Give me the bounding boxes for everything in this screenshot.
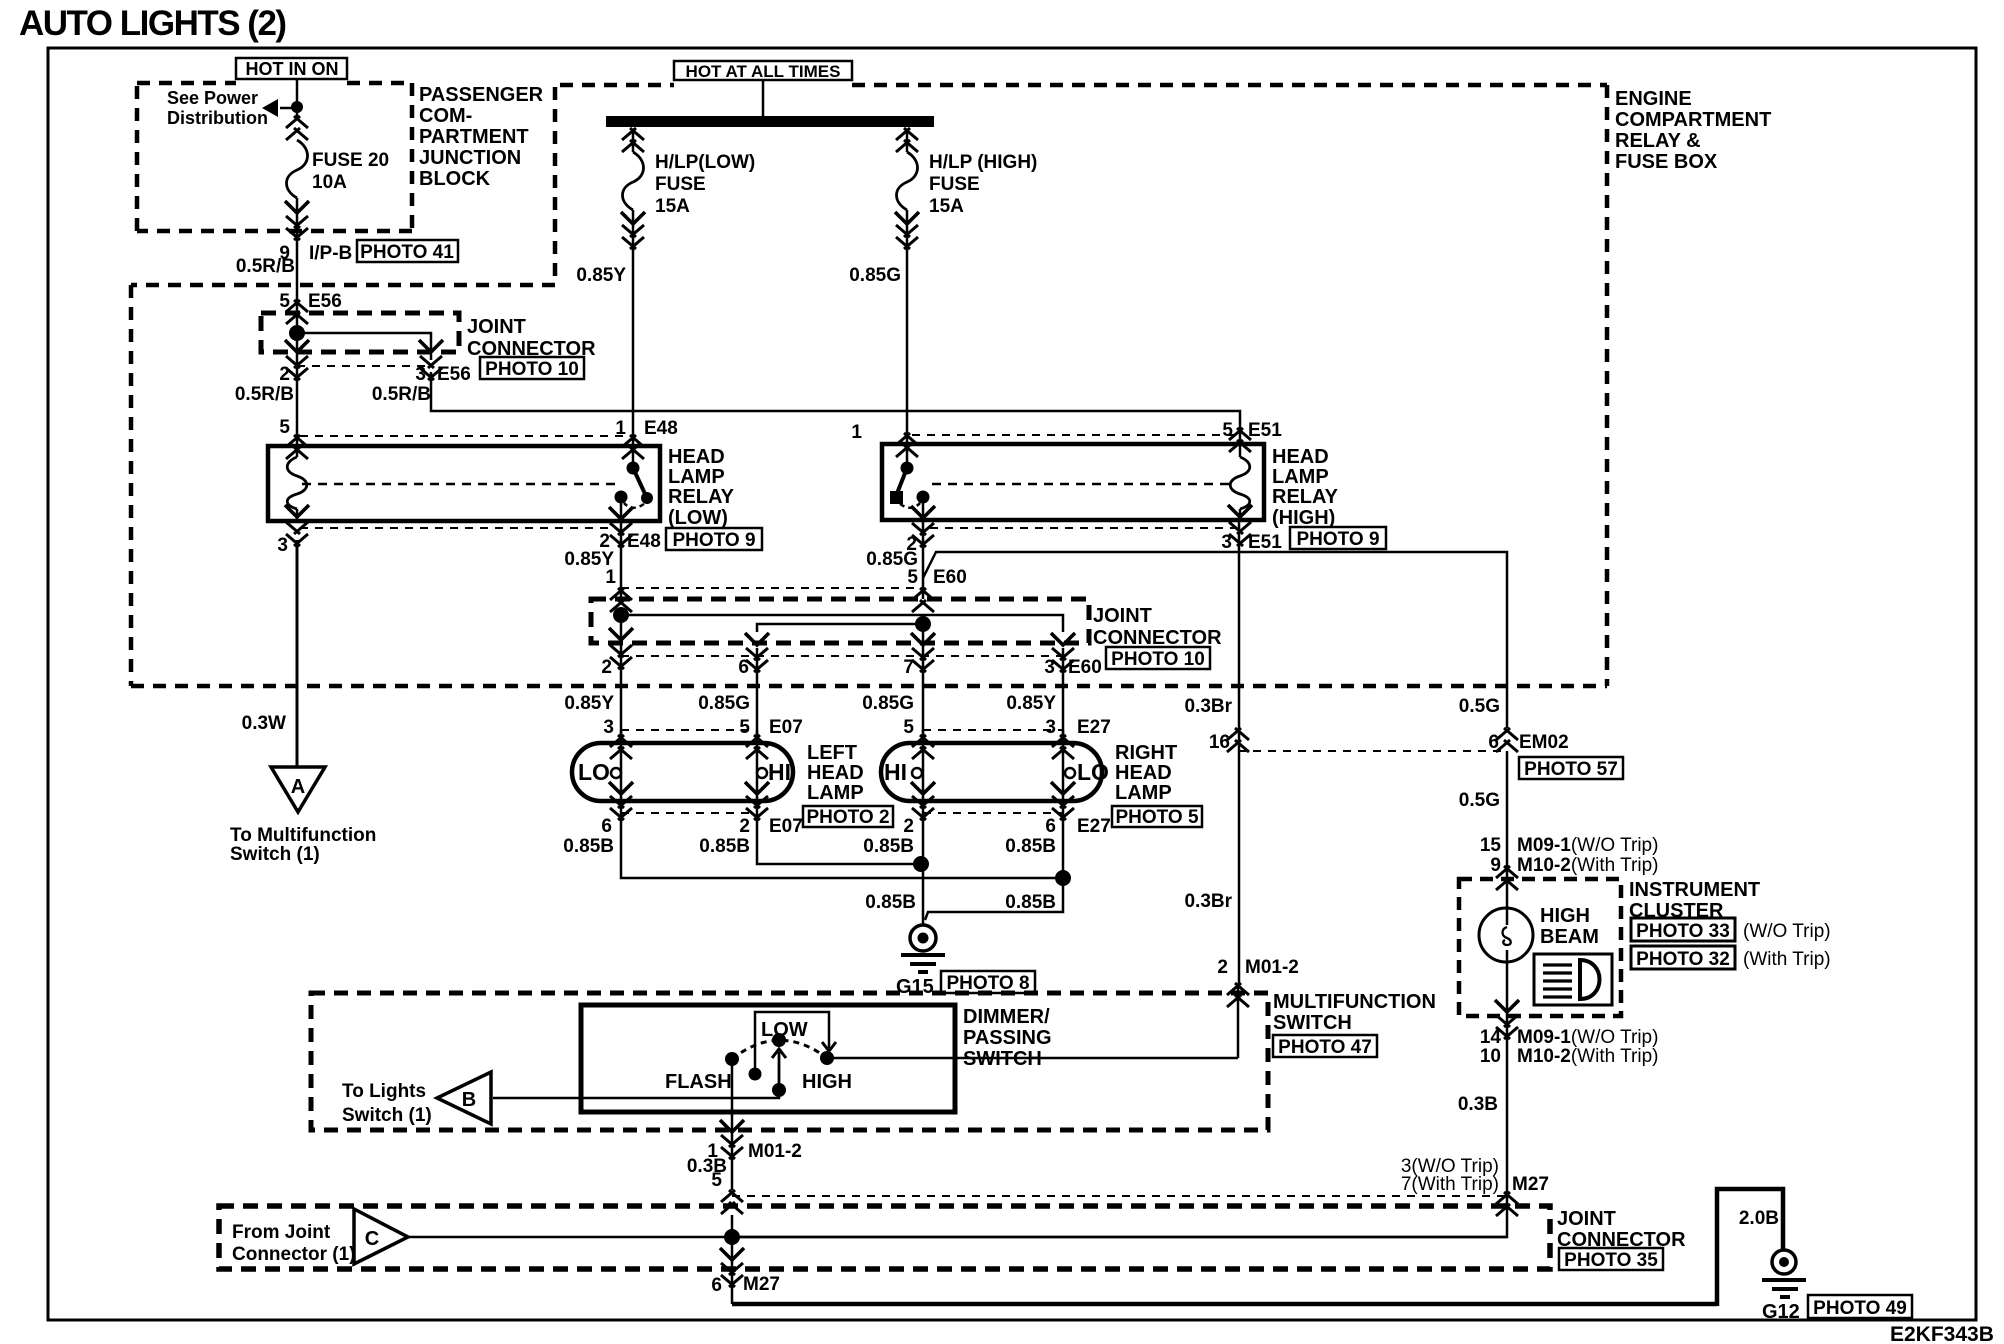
svg-text:E27: E27 (1077, 717, 1111, 738)
svg-text:FUSE 20: FUSE 20 (312, 150, 389, 171)
fuse H/LP (HIGH) FUSE 15A (897, 152, 918, 210)
relay low coil exit pin 3 (285, 505, 309, 517)
svg-text:0.85G: 0.85G (698, 693, 750, 714)
right head lamp oval (881, 743, 1102, 801)
svg-text:HIGH: HIGH (802, 1071, 852, 1093)
svg-text:HI: HI (884, 759, 907, 785)
wire relay low pin2 to E60 pin1 (620, 521, 623, 599)
label HOT AT ALL TIMES (674, 61, 852, 81)
svg-text:PHOTO 35: PHOTO 35 (1564, 1250, 1658, 1271)
svg-text:LO: LO (1077, 759, 1109, 785)
svg-text:0.85B: 0.85B (865, 892, 916, 913)
svg-text:JUNCTION: JUNCTION (419, 147, 521, 169)
connector marker M27 pin5 (721, 1190, 743, 1214)
svg-text:HIGH: HIGH (1540, 905, 1590, 927)
svg-text:2: 2 (1217, 957, 1228, 978)
svg-text:PASSENGER: PASSENGER (419, 84, 544, 106)
wires E60 exits downward (621, 615, 1063, 735)
relay low pin2 exit chevron and labels (610, 523, 632, 547)
wire 0.5G to instrument cluster (1506, 751, 1509, 879)
svg-text:5: 5 (903, 717, 914, 738)
label PHOTO 9 (low) (666, 528, 762, 551)
svg-text:15A: 15A (929, 196, 964, 217)
svg-text:7: 7 (903, 657, 914, 678)
relay high pin2 exit chevron and label (912, 523, 934, 547)
svg-text:HOT IN ON: HOT IN ON (246, 59, 339, 79)
svg-text:C: C (365, 1228, 379, 1250)
svg-text:FUSE: FUSE (929, 174, 980, 195)
svg-text:LAMP: LAMP (807, 782, 864, 804)
svg-text:2: 2 (279, 364, 290, 385)
connector E60 dashed line (bottom) (621, 655, 1063, 657)
svg-text:Switch (1): Switch (1) (230, 844, 320, 865)
svg-text:E51: E51 (1248, 420, 1282, 441)
connector dashed line E07 bottom (621, 812, 758, 814)
svg-text:PHOTO 10: PHOTO 10 (1111, 649, 1205, 670)
svg-text:1: 1 (615, 418, 626, 439)
high beam icon box (1534, 954, 1612, 1005)
wire 0.3W relay low coil to A (296, 540, 299, 767)
svg-text:PHOTO 49: PHOTO 49 (1813, 1298, 1907, 1319)
connector E48 dashed line (top) (300, 435, 628, 437)
label PHOTO 57 (1519, 757, 1623, 780)
svg-text:E56: E56 (308, 291, 342, 312)
connector marker E56 pin2 exit (285, 340, 309, 352)
svg-text:1: 1 (605, 567, 616, 588)
svg-text:(With Trip): (With Trip) (1743, 949, 1831, 970)
svg-text:9: 9 (1490, 855, 1501, 876)
relay low linkage dashed (302, 483, 616, 486)
dashed box: passenger compartment junction block (lower) + engine compartment relay & fuse box (131, 85, 1607, 686)
svg-text:15A: 15A (655, 196, 690, 217)
svg-text:FLASH: FLASH (665, 1071, 732, 1093)
node junction at M27 pin6 (724, 1229, 740, 1245)
svg-text:SWITCH: SWITCH (1273, 1012, 1352, 1034)
wire below fuse 20 (296, 198, 299, 299)
label PHOTO 35 (1559, 1248, 1663, 1271)
connector E56 dashed line (bottom) (297, 365, 431, 367)
svg-text:M01-2: M01-2 (748, 1141, 802, 1162)
text PASSENGER COMPARTMENT JUNCTION BLOCK (419, 84, 544, 190)
fuse FUSE 20 10A symbol (287, 140, 308, 198)
svg-text:FUSE: FUSE (655, 174, 706, 195)
svg-text:PHOTO 41: PHOTO 41 (360, 242, 454, 263)
left lamp wires through (621, 730, 757, 813)
label PHOTO 5 (1112, 806, 1202, 828)
svg-text:E48: E48 (644, 418, 678, 439)
svg-text:HEAD: HEAD (1115, 762, 1172, 784)
svg-text:0.5R/B: 0.5R/B (372, 384, 431, 405)
label PHOTO 9 (high) (1290, 527, 1386, 550)
connector marker M27 right (1496, 1192, 1518, 1216)
power bus bar (606, 116, 934, 127)
connector marker E48 pin1 (622, 435, 644, 459)
svg-text:2: 2 (601, 657, 612, 678)
svg-text:3: 3 (415, 364, 426, 385)
text ENGINE COMPARTMENT RELAY & FUSE BOX (1615, 88, 1771, 173)
svg-text:HEAD: HEAD (807, 762, 864, 784)
text HIGH BEAM (1540, 905, 1599, 948)
node junction E60 high (915, 616, 931, 632)
node junction 0.85B low (1055, 870, 1071, 886)
svg-text:RELAY: RELAY (1272, 486, 1339, 508)
joint connector E60 dashed box (591, 599, 1089, 643)
wire 0.3B down to M27 (732, 1016, 1507, 1237)
svg-text:1: 1 (851, 422, 862, 443)
svg-text:2.0B: 2.0B (1739, 1208, 1779, 1229)
svg-text:E27: E27 (1077, 816, 1111, 837)
svg-text:MULTIFUNCTION: MULTIFUNCTION (1273, 991, 1436, 1013)
svg-text:M01-2: M01-2 (1245, 957, 1299, 978)
connector E60 dashed line (top) (621, 587, 915, 589)
svg-text:E2KF343B: E2KF343B (1890, 1323, 1994, 1344)
svg-text:5: 5 (711, 1170, 722, 1191)
svg-text:HI: HI (768, 759, 791, 785)
svg-text:3: 3 (603, 717, 614, 738)
ground bus wire from left HI to right HI (757, 813, 921, 864)
connector marker E51 pin1 (896, 433, 918, 457)
dimmer travel dashed arc (732, 1040, 827, 1059)
relay high switch contact (906, 444, 909, 468)
wire pivot to B line (493, 1090, 779, 1098)
wire from fuse HIGH down to relay E51-1 (906, 129, 909, 442)
svg-text:0.85G: 0.85G (862, 693, 914, 714)
wire relay high pin3 branch: down 0.3Br and right 0.5G (1238, 520, 1241, 983)
wire FLASH contact down exit 1 M01-2 (731, 1059, 734, 1190)
svg-text:PHOTO 9: PHOTO 9 (1296, 529, 1379, 550)
wire from HOT AT ALL TIMES to bus (762, 80, 765, 116)
connector marker into instrument cluster (1496, 866, 1518, 890)
svg-text:0.3Br: 0.3Br (1184, 891, 1232, 912)
text JOINT CONNECTOR (E60) (1093, 605, 1222, 649)
svg-text:M27: M27 (1512, 1174, 1549, 1195)
svg-text:3: 3 (1221, 532, 1232, 553)
label HOT IN ON (236, 58, 347, 79)
svg-text:COM-: COM- (419, 105, 472, 127)
high beam indicator bulb (1479, 908, 1533, 962)
svg-text:0.85B: 0.85B (1005, 892, 1056, 913)
fuse H/LP(LOW) connector chevrons (622, 128, 644, 152)
svg-text:PHOTO 32: PHOTO 32 (1636, 949, 1730, 970)
svg-text:(W/O Trip): (W/O Trip) (1743, 921, 1831, 942)
svg-text:RELAY &: RELAY & (1615, 130, 1701, 152)
svg-text:PASSING: PASSING (963, 1027, 1052, 1049)
svg-text:3: 3 (1045, 717, 1056, 738)
svg-text:10A: 10A (312, 172, 347, 193)
connector E51 dashed line (top) (912, 434, 1235, 436)
svg-text:H/LP (HIGH): H/LP (HIGH) (929, 152, 1037, 173)
svg-text:FUSE BOX: FUSE BOX (1615, 151, 1718, 173)
triangle A to multifunction switch (271, 767, 325, 812)
svg-text:5: 5 (279, 417, 290, 438)
label PHOTO 10 (E60) (1106, 647, 1210, 670)
node junction 0.85B high (913, 856, 929, 872)
text DIMMER/ PASSING SWITCH (963, 1006, 1052, 1070)
svg-text:PHOTO 10: PHOTO 10 (485, 359, 579, 380)
svg-text:I/P-B: I/P-B (309, 243, 352, 264)
wire right LO jog to ground wire (925, 813, 1063, 920)
svg-text:To Lights: To Lights (342, 1081, 426, 1102)
svg-text:0.85Y: 0.85Y (564, 693, 614, 714)
svg-text:6: 6 (738, 657, 749, 678)
relay high coil (1239, 444, 1242, 520)
fuse F20 connector chevrons (top) (286, 116, 308, 140)
svg-text:BLOCK: BLOCK (419, 168, 491, 190)
svg-text:Connector (1): Connector (1) (232, 1244, 356, 1265)
triangle B to lights switch (437, 1072, 491, 1124)
text HEAD LAMP RELAY (LOW) (668, 446, 735, 529)
svg-text:3: 3 (277, 535, 288, 556)
label PHOTO 33 (W/O Trip) (1631, 918, 1831, 942)
svg-text:M09-1(W/O Trip): M09-1(W/O Trip) (1517, 835, 1658, 856)
wire 0.5R/B down to relay LOW coil pin5 (296, 360, 299, 446)
wire segment: right edge of upper passenger block extension (553, 87, 558, 285)
svg-text:0.85B: 0.85B (563, 836, 614, 857)
wire E60 high bus to left lamp HI (757, 624, 923, 632)
svg-text:PHOTO 33: PHOTO 33 (1636, 921, 1730, 942)
svg-text:PHOTO 57: PHOTO 57 (1524, 759, 1618, 780)
label PHOTO 47 (1273, 1035, 1377, 1058)
svg-text:M10-2(With Trip): M10-2(With Trip) (1517, 855, 1658, 876)
joint connector E56 dashed box (261, 313, 459, 352)
svg-text:CONNECTOR: CONNECTOR (1093, 627, 1222, 649)
svg-text:0.3B: 0.3B (1458, 1094, 1498, 1115)
connector dashed line E07 top (621, 729, 758, 731)
svg-text:0.5R/B: 0.5R/B (236, 256, 295, 277)
svg-text:E51: E51 (1248, 532, 1282, 553)
triangle C from joint connector (354, 1209, 408, 1264)
node junction inside E56 joint connector (289, 325, 305, 341)
fuse H/LP(LOW) FUSE 15A (623, 152, 644, 210)
connector EM02 dashed line (1238, 750, 1504, 752)
connector marker below fuse 20 (285, 201, 309, 213)
connector E51 dashed line (bottom) (930, 527, 1235, 529)
svg-text:7(With Trip): 7(With Trip) (1401, 1174, 1499, 1195)
svg-text:LAMP: LAMP (1272, 466, 1329, 488)
svg-text:HEAD: HEAD (668, 446, 725, 468)
svg-text:6: 6 (711, 1275, 722, 1296)
connector marker E51 pin5 (1229, 428, 1251, 452)
wire 0.5G tap from 0.85G (923, 552, 1507, 728)
E60 exit arrows (609, 628, 633, 640)
svg-text:To Multifunction: To Multifunction (230, 825, 376, 846)
ground G15 symbol (910, 925, 936, 951)
wire right HI down to ground (922, 813, 925, 925)
dimmer arm: LOW dot, arrow, pivot (772, 1033, 786, 1047)
svg-text:LEFT: LEFT (807, 742, 857, 764)
wire C to M27 junction (408, 1236, 1507, 1239)
svg-text:G15: G15 (896, 976, 934, 998)
wire HIGH contact to 0.3Br (827, 983, 1238, 1058)
connector E48 dashed line (bottom) (300, 527, 612, 529)
svg-text:HEAD: HEAD (1272, 446, 1329, 468)
svg-text:0.85Y: 0.85Y (576, 265, 626, 286)
svg-text:PHOTO 5: PHOTO 5 (1115, 807, 1198, 828)
svg-text:0.3Br: 0.3Br (1184, 696, 1232, 717)
relay high linkage dashed (932, 483, 1232, 486)
svg-text:0.3W: 0.3W (242, 713, 286, 734)
text LEFT HEAD LAMP (807, 742, 864, 804)
dashed box: passenger compartment junction block (upper) (137, 83, 412, 231)
svg-text:BEAM: BEAM (1540, 926, 1599, 948)
svg-text:5: 5 (907, 567, 918, 588)
svg-text:0.85Y: 0.85Y (1006, 693, 1056, 714)
svg-text:PHOTO 9: PHOTO 9 (672, 530, 755, 551)
label PHOTO 2 (803, 806, 893, 828)
svg-text:15: 15 (1480, 835, 1502, 856)
right lamp wires through (923, 730, 1063, 813)
relay high coil exit pin 3 E51 (1228, 505, 1252, 517)
connector M27 dashed line (732, 1195, 1507, 1197)
left head lamp oval (572, 743, 793, 801)
node junction at HOT IN ON (291, 101, 303, 113)
ground G12 symbol (1772, 1250, 1796, 1274)
dashed box: instrument cluster (1459, 879, 1621, 1016)
dimmer passing switch solid box (581, 1005, 955, 1112)
svg-text:HOT AT ALL TIMES: HOT AT ALL TIMES (686, 62, 841, 81)
svg-text:16: 16 (1209, 732, 1230, 753)
svg-text:6: 6 (1488, 732, 1499, 753)
svg-text:E07: E07 (769, 816, 803, 837)
svg-text:RELAY: RELAY (668, 486, 735, 508)
svg-text:B: B (462, 1089, 476, 1111)
svg-text:JOINT: JOINT (1557, 1208, 1616, 1230)
connector dashed line E27 top (923, 729, 1063, 731)
svg-text:E60: E60 (1068, 657, 1102, 678)
svg-text:5: 5 (739, 717, 750, 738)
label PHOTO 10 (E56) (480, 357, 584, 380)
svg-text:EM02: EM02 (1519, 732, 1569, 753)
svg-text:DIMMER/: DIMMER/ (963, 1006, 1050, 1028)
wire E56-3 to relay HIGH coil pin5 (0.5R/B feed) (431, 372, 1240, 444)
svg-text:0.5G: 0.5G (1459, 696, 1500, 717)
dashed box: multifunction switch (311, 993, 1268, 1130)
wire: HOT IN ON drop (296, 78, 299, 120)
svg-text:(LOW): (LOW) (668, 507, 728, 529)
svg-text:2: 2 (739, 816, 750, 837)
high beam icon rays (1543, 965, 1572, 997)
instrument cluster exit arrow (1495, 1000, 1519, 1012)
svg-text:3: 3 (1044, 657, 1055, 678)
svg-text:PHOTO 2: PHOTO 2 (806, 807, 889, 828)
svg-text:M09-1(W/O Trip): M09-1(W/O Trip) (1517, 1027, 1658, 1048)
svg-text:10: 10 (1480, 1046, 1501, 1067)
svg-text:0.85G: 0.85G (849, 265, 901, 286)
svg-text:0.85B: 0.85B (1005, 836, 1056, 857)
svg-text:E60: E60 (933, 567, 967, 588)
wire 2.0B ground run (732, 1189, 1783, 1306)
svg-text:6: 6 (1045, 816, 1056, 837)
svg-text:0.5G: 0.5G (1459, 790, 1500, 811)
relay low box (268, 446, 660, 521)
svg-text:E56: E56 (437, 364, 471, 385)
svg-text:See Power: See Power (167, 88, 258, 108)
wire from fuse LOW down to relay E48-1 (632, 129, 635, 444)
svg-text:LAMP: LAMP (1115, 782, 1172, 804)
ground bus wire from left LO to right LO (621, 813, 1063, 878)
relay low switch contact (632, 444, 635, 468)
text MULTIFUNCTION SWITCH (1273, 991, 1436, 1034)
text RIGHT HEAD LAMP (1115, 742, 1177, 804)
connector marker E56 pin5 (286, 300, 308, 324)
svg-text:H/LP(LOW): H/LP(LOW) (655, 152, 755, 173)
text INSTRUMENT CLUSTER (1629, 879, 1760, 922)
svg-text:COMPARTMENT: COMPARTMENT (1615, 109, 1771, 131)
svg-text:E07: E07 (769, 717, 803, 738)
HIGH contact dot (820, 1051, 834, 1065)
connector marker M01-2 pin2 (1227, 983, 1249, 1007)
LOW contact bracket (755, 1012, 829, 1070)
svg-text:(HIGH): (HIGH) (1272, 507, 1335, 529)
arrow to See Power Distribution (280, 107, 297, 110)
connector marker E56 pin3 exit (419, 340, 443, 352)
svg-text:JOINT: JOINT (467, 316, 526, 338)
svg-text:LO: LO (578, 759, 610, 785)
svg-text:G12: G12 (1762, 1301, 1800, 1323)
svg-text:14: 14 (1480, 1027, 1502, 1048)
svg-text:JOINT: JOINT (1093, 605, 1152, 627)
label PHOTO 32 (With Trip) (1631, 946, 1831, 970)
high beam icon lens (1580, 960, 1600, 999)
connector dashed line E27 bottom (923, 812, 1063, 814)
FLASH contact dot (725, 1052, 739, 1066)
svg-text:Distribution: Distribution (167, 108, 268, 128)
svg-text:From Joint: From Joint (232, 1222, 331, 1243)
svg-text:Switch (1): Switch (1) (342, 1105, 432, 1126)
svg-text:INSTRUMENT: INSTRUMENT (1629, 879, 1760, 901)
wire from junction to E56 pin3 branch (297, 333, 431, 360)
svg-text:LAMP: LAMP (668, 466, 725, 488)
node junction E60 low (613, 607, 629, 623)
svg-text:E48: E48 (627, 531, 661, 552)
svg-text:RIGHT: RIGHT (1115, 742, 1177, 764)
pin 6 EM02 chevron (1496, 728, 1518, 752)
relay high box (882, 444, 1264, 520)
svg-text:PHOTO 8: PHOTO 8 (946, 973, 1029, 994)
svg-text:M10-2(With Trip): M10-2(With Trip) (1517, 1046, 1658, 1067)
text JOINT CONNECTOR (E56) (467, 316, 596, 360)
wire M27 pin6 exit (731, 1215, 734, 1304)
wire E60 low bus to right lamp LO (621, 615, 1063, 632)
svg-text:0.5R/B: 0.5R/B (235, 384, 294, 405)
text JOINT CONNECTOR (M27) (1557, 1208, 1686, 1251)
fuse H/LP (HIGH) connector chevrons (896, 128, 918, 152)
pin 16 chevron (1227, 728, 1249, 752)
svg-text:6: 6 (601, 816, 612, 837)
svg-text:AUTO LIGHTS (2): AUTO LIGHTS (2) (19, 4, 286, 43)
svg-text:ENGINE: ENGINE (1615, 88, 1692, 110)
wire relay high pin2 to E60 pin5 (922, 520, 925, 599)
svg-text:PARTMENT: PARTMENT (419, 126, 529, 148)
svg-text:M27: M27 (743, 1274, 780, 1295)
svg-text:0.85B: 0.85B (699, 836, 750, 857)
svg-text:0.85B: 0.85B (863, 836, 914, 857)
svg-text:A: A (291, 776, 305, 798)
relay low coil (296, 446, 299, 521)
wire 0.5R/B from E56-5 down into joint connector (296, 299, 299, 360)
svg-text:2: 2 (903, 816, 914, 837)
text HEAD LAMP RELAY (HIGH) (1272, 446, 1339, 529)
svg-text:PHOTO 47: PHOTO 47 (1278, 1037, 1372, 1058)
dashed box: joint connector (photo 35) (219, 1206, 1550, 1269)
